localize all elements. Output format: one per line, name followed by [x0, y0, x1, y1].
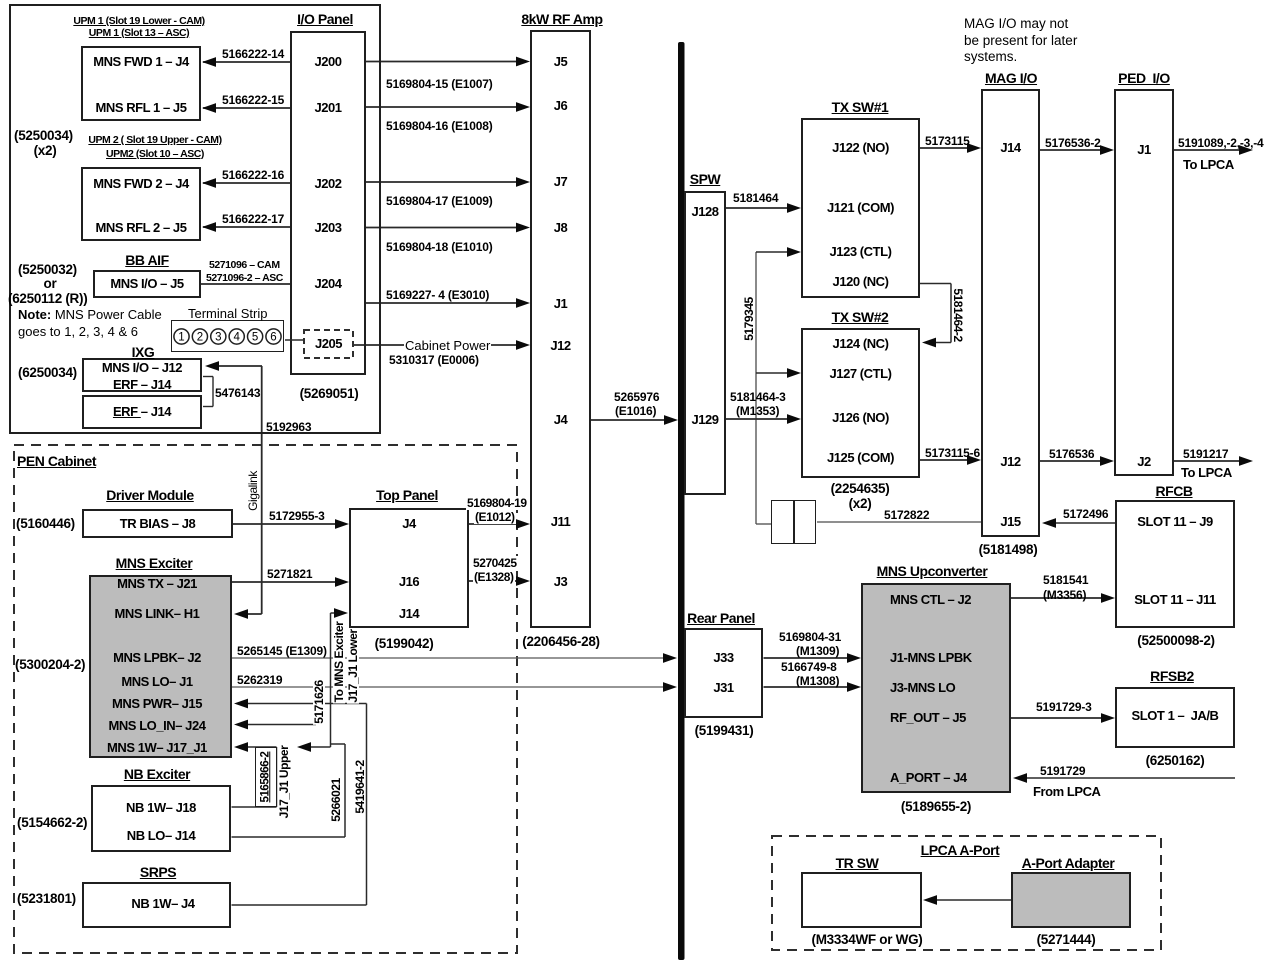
svg-text:5: 5: [252, 332, 258, 344]
svg-text:1: 1: [178, 332, 184, 344]
svg-text:2: 2: [197, 332, 203, 344]
svg-text:6: 6: [270, 332, 276, 344]
svg-text:3: 3: [215, 332, 221, 344]
svg-text:4: 4: [233, 332, 240, 344]
